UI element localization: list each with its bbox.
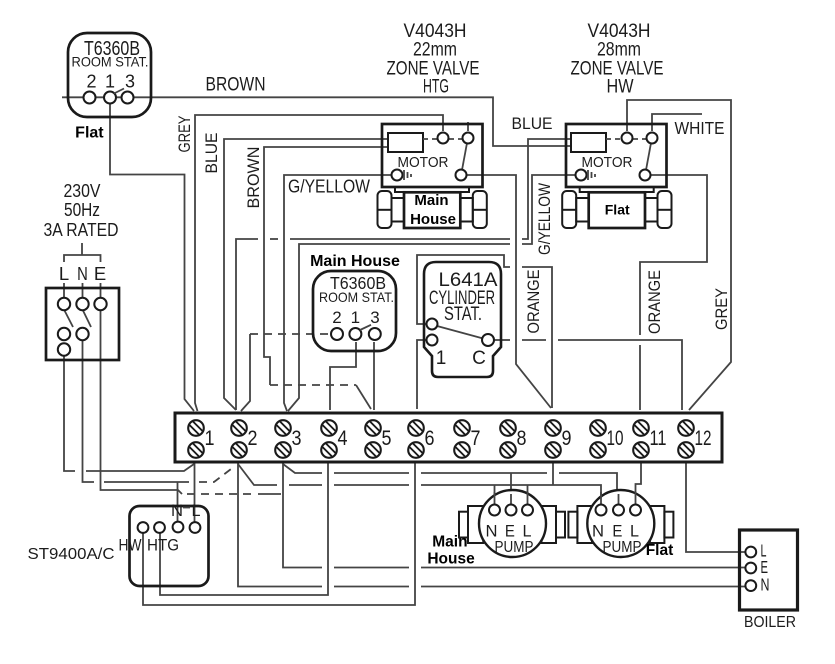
svg-text:PUMP: PUMP [495,539,534,556]
svg-text:4: 4 [338,427,348,450]
svg-text:G/YELLOW: G/YELLOW [288,177,370,197]
svg-text:6: 6 [425,427,435,450]
svg-text:N: N [592,522,604,541]
svg-text:N: N [486,522,498,541]
svg-text:ROOM STAT.: ROOM STAT. [319,289,394,305]
svg-text:MOTOR: MOTOR [582,154,633,171]
svg-text:BROWN: BROWN [244,147,263,209]
svg-text:230V: 230V [64,181,101,201]
svg-text:N: N [761,575,770,595]
svg-text:2: 2 [86,72,96,92]
svg-text:1: 1 [105,72,115,92]
svg-text:1: 1 [436,348,447,369]
svg-text:1: 1 [205,427,215,450]
svg-text:22mm: 22mm [413,40,457,61]
svg-text:7: 7 [471,427,481,450]
svg-text:2: 2 [332,308,341,327]
svg-text:L: L [630,522,639,541]
svg-text:E: E [94,263,106,284]
svg-text:House: House [410,211,456,228]
svg-text:STAT.: STAT. [444,304,482,325]
svg-text:Flat: Flat [646,542,674,559]
svg-text:1: 1 [351,308,360,327]
svg-text:12: 12 [695,427,712,450]
svg-text:3: 3 [370,308,379,327]
svg-text:L: L [59,263,69,284]
svg-text:BROWN: BROWN [206,75,266,96]
svg-text:BOILER: BOILER [744,614,796,631]
svg-text:L: L [523,522,532,541]
svg-text:3: 3 [292,427,302,450]
svg-text:5: 5 [382,427,392,450]
svg-text:E: E [505,522,515,541]
svg-text:Flat: Flat [75,125,104,142]
svg-text:MOTOR: MOTOR [398,154,449,171]
svg-text:28mm: 28mm [597,40,641,61]
svg-text:L: L [192,501,201,520]
svg-text:HW: HW [607,77,634,98]
svg-text:G/YELLOW: G/YELLOW [535,183,554,255]
svg-text:ORANGE: ORANGE [645,270,664,334]
svg-text:Main: Main [432,533,467,550]
svg-text:BLUE: BLUE [202,133,221,174]
svg-text:WHITE: WHITE [675,118,725,138]
svg-text:Main: Main [414,192,448,209]
svg-text:Main House: Main House [310,253,400,270]
svg-text:E: E [612,522,622,541]
svg-text:BLUE: BLUE [512,114,553,133]
svg-text:3: 3 [125,72,135,92]
svg-text:8: 8 [517,427,527,450]
svg-text:ST9400A/C: ST9400A/C [28,546,115,563]
svg-text:3A RATED: 3A RATED [44,220,119,240]
svg-text:ROOM STAT.: ROOM STAT. [72,54,149,70]
svg-text:10: 10 [607,427,624,450]
svg-text:House: House [427,550,475,567]
svg-text:9: 9 [562,427,572,450]
svg-text:N: N [77,263,88,284]
svg-text:PUMP: PUMP [603,539,642,556]
svg-text:ORANGE: ORANGE [524,270,543,334]
svg-text:HTG: HTG [423,77,449,98]
svg-text:C: C [472,348,486,369]
svg-text:11: 11 [650,427,667,450]
svg-text:HTG: HTG [147,536,179,555]
svg-text:N: N [171,501,183,520]
svg-text:50Hz: 50Hz [64,200,100,220]
svg-text:GREY: GREY [712,288,731,330]
svg-text:HW: HW [119,536,142,555]
svg-text:Flat: Flat [605,202,630,218]
svg-text:GREY: GREY [175,116,194,153]
svg-text:2: 2 [248,427,258,450]
